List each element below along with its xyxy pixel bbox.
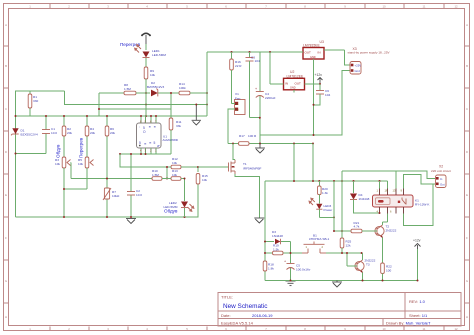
connector X3 bbox=[348, 47, 390, 74]
wire mid ground rail bbox=[228, 143, 313, 145]
svg-text:D: D bbox=[5, 150, 7, 154]
resistor R13 bbox=[167, 169, 185, 180]
svg-text:G: G bbox=[466, 279, 468, 283]
svg-text:X2: X2 bbox=[439, 165, 443, 169]
wire led3 bottom to v334 bbox=[319, 216, 334, 218]
svg-text:∊: ∊ bbox=[149, 125, 151, 129]
ground at bus2 bbox=[126, 219, 136, 224]
svg-text:100.0x16v: 100.0x16v bbox=[296, 268, 311, 272]
resistor R22 bbox=[381, 263, 392, 281]
ground at bottom bus bbox=[332, 281, 342, 288]
wire v334 column bbox=[333, 181, 335, 231]
node j198-167 bbox=[197, 166, 199, 168]
resistor R17 bbox=[239, 134, 258, 145]
node top bus dots bbox=[231, 51, 233, 53]
power flag +12V right bbox=[413, 239, 421, 281]
resistor R15 bbox=[196, 167, 208, 184]
led LED1 bbox=[135, 44, 167, 67]
wire y109 to ground col bbox=[99, 108, 171, 110]
svg-text:stand-by power supply 18...25V: stand-by power supply 18...25V bbox=[348, 51, 390, 55]
svg-text:12: 12 bbox=[454, 4, 458, 8]
svg-text:Drawn By: Muh_VertoleT: Drawn By: Muh_VertoleT bbox=[386, 321, 431, 326]
svg-text:104: 104 bbox=[325, 93, 330, 97]
svg-text:B: B bbox=[466, 64, 468, 68]
pushbutton B1 bbox=[302, 234, 330, 253]
svg-text:H: H bbox=[466, 315, 468, 319]
wire R1 top jog bbox=[65, 91, 207, 105]
svg-text:100 R: 100 R bbox=[248, 134, 257, 138]
svg-text:2200uF: 2200uF bbox=[265, 96, 276, 100]
svg-text:12: 12 bbox=[454, 327, 458, 331]
node j2598 bbox=[259, 117, 261, 119]
svg-text:∊: ∊ bbox=[149, 141, 151, 145]
voltage regulator U2 bbox=[270, 70, 320, 92]
svg-text:220 volt circuit: 220 volt circuit bbox=[431, 169, 451, 173]
resistor R14 bbox=[179, 82, 208, 95]
resistor R20 bbox=[318, 181, 329, 204]
svg-text:2018-06-19: 2018-06-19 bbox=[252, 313, 273, 318]
voltage regulator U3 bbox=[297, 40, 345, 135]
resistor R9 bbox=[144, 67, 155, 116]
svg-text:КНОПКА SB-1: КНОПКА SB-1 bbox=[309, 237, 330, 241]
svg-text:H: H bbox=[5, 315, 7, 319]
zener diode D1 bbox=[11, 128, 38, 136]
capacitor C2 bbox=[127, 154, 142, 217]
svg-text:T3: T3 bbox=[366, 263, 370, 267]
ground below R14 bbox=[192, 105, 201, 126]
svg-text:2N2222: 2N2222 bbox=[386, 229, 397, 233]
svg-text:20k: 20k bbox=[110, 131, 115, 135]
op-amp U1 bbox=[137, 116, 179, 154]
svg-text:Обдув: Обдув bbox=[56, 144, 61, 158]
resistor R6 bbox=[105, 116, 115, 187]
svg-text:OUT: OUT bbox=[305, 51, 312, 55]
wire R5 bottom to R3 col bbox=[64, 188, 87, 190]
svg-text:10k: 10k bbox=[172, 161, 177, 165]
svg-text:Power: Power bbox=[324, 208, 333, 212]
svg-text::: : bbox=[139, 125, 140, 129]
svg-text:10.0: 10.0 bbox=[51, 131, 57, 135]
wire top bus 15V bbox=[207, 51, 303, 53]
svg-text:10.0: 10.0 bbox=[136, 193, 142, 197]
node C6 to gnd return bbox=[313, 104, 315, 106]
wire relay top loop2 bbox=[403, 175, 435, 185]
ground at mid rail bbox=[255, 144, 265, 154]
svg-text:10k: 10k bbox=[172, 173, 177, 177]
wire gate line to T1 bbox=[198, 166, 226, 168]
frame ticks and indices bbox=[50, 4, 444, 9]
node u1 bottom dots bbox=[119, 153, 121, 155]
svg-text:Обдув: Обдув bbox=[164, 209, 178, 214]
wire X3 gnd down bbox=[260, 71, 350, 136]
led LED2 bbox=[164, 179, 194, 218]
wire bus1 bbox=[16, 115, 208, 117]
svg-text:11: 11 bbox=[423, 4, 426, 8]
svg-text:D: D bbox=[466, 150, 468, 154]
wire R12 R13 link bbox=[166, 167, 168, 179]
transistor T3 bbox=[347, 253, 376, 281]
svg-text:10k: 10k bbox=[150, 73, 155, 77]
svg-text:LM7812EE: LM7812EE bbox=[287, 74, 305, 78]
svg-text:RY-12W-K: RY-12W-K bbox=[415, 203, 430, 207]
mosfet T1 bbox=[226, 144, 262, 175]
ground T1 source bbox=[254, 218, 264, 223]
svg-text:104: 104 bbox=[255, 59, 260, 63]
svg-text:LED-5MM: LED-5MM bbox=[152, 53, 166, 57]
svg-text:10: 10 bbox=[382, 4, 386, 8]
wire U1 row down to R12 feed bbox=[120, 154, 167, 167]
resistor R12 bbox=[167, 157, 198, 169]
wire y109 line bbox=[98, 93, 100, 116]
capacitor C4 electrolytic bbox=[255, 52, 276, 118]
svg-text:20k: 20k bbox=[67, 131, 72, 135]
svg-text:O: O bbox=[143, 130, 146, 134]
node j146-93 bbox=[145, 92, 147, 94]
wire U2 in riser bbox=[269, 52, 271, 84]
svg-text:1N4448: 1N4448 bbox=[359, 197, 370, 201]
node j131-154 bbox=[130, 153, 132, 155]
svg-text:IRF540NPBF: IRF540NPBF bbox=[243, 167, 262, 171]
wire R8 row bbox=[99, 92, 124, 94]
resistor R23 12k bbox=[340, 238, 351, 253]
svg-text:1.8k: 1.8k bbox=[268, 267, 274, 271]
svg-text:1.5k: 1.5k bbox=[273, 247, 279, 251]
svg-text:1.5M: 1.5M bbox=[152, 173, 159, 177]
wire bus1 riser bbox=[206, 52, 208, 116]
resistor R4 bbox=[85, 116, 95, 157]
svg-text:Date:: Date: bbox=[221, 313, 231, 318]
wire D3R19 right col bbox=[290, 242, 292, 264]
capacitor C6 bbox=[314, 83, 331, 105]
resistor R10 bbox=[152, 169, 167, 180]
power flag +12V at U2 bbox=[315, 73, 323, 84]
svg-text:Sheet: 1/1: Sheet: 1/1 bbox=[409, 313, 428, 318]
svg-text:5: 5 bbox=[139, 141, 141, 145]
led LED3 bbox=[309, 198, 332, 217]
svg-text:Gnd: Gnd bbox=[355, 69, 361, 73]
svg-text:∊: ∊ bbox=[144, 142, 146, 146]
svg-text:R17: R17 bbox=[239, 134, 245, 138]
svg-text:12k: 12k bbox=[346, 244, 351, 248]
diode D4 bbox=[350, 181, 370, 201]
node j167 bbox=[166, 166, 168, 168]
resistor R18 bbox=[263, 261, 274, 271]
resistor R2 bbox=[62, 116, 72, 157]
svg-text:∊: ∊ bbox=[154, 125, 156, 129]
resistor R11 bbox=[169, 92, 182, 154]
node j64-189 bbox=[63, 188, 65, 190]
svg-text:+12v: +12v bbox=[413, 239, 421, 243]
resistor R16 bbox=[230, 52, 243, 104]
wire D4 to coil bottom bbox=[354, 200, 380, 214]
power flag Peregrev arrow bbox=[141, 33, 151, 44]
svg-text:10kΩ: 10kΩ bbox=[112, 194, 120, 198]
potentiometer R3 bbox=[55, 157, 71, 217]
wire X2 out to relay contact bbox=[404, 184, 434, 226]
svg-text:C: C bbox=[466, 107, 468, 111]
svg-text:X1: X1 bbox=[235, 92, 239, 96]
wire C3 C4 join bbox=[250, 118, 260, 144]
connector X1 fan bbox=[228, 92, 245, 144]
svg-text:5: 5 bbox=[154, 141, 156, 145]
node bus1 dots bbox=[45, 115, 47, 117]
svg-text:Out: Out bbox=[440, 183, 445, 187]
svg-text:F: F bbox=[466, 236, 468, 240]
wire T1 source to ground col bbox=[235, 174, 259, 218]
svg-text:EasyEDA V5.5.14: EasyEDA V5.5.14 bbox=[221, 321, 254, 326]
svg-text:4.7k: 4.7k bbox=[354, 224, 360, 228]
resistor R21 bbox=[351, 221, 375, 233]
svg-text:33k: 33k bbox=[176, 124, 181, 128]
svg-text:20k: 20k bbox=[90, 131, 95, 135]
svg-text:IN: IN bbox=[285, 81, 288, 85]
wire wiper row bbox=[71, 178, 152, 180]
svg-text:C: C bbox=[5, 107, 7, 111]
node U1 top pin dots bbox=[140, 115, 142, 117]
svg-text:E: E bbox=[5, 193, 7, 197]
svg-text:11: 11 bbox=[423, 327, 426, 331]
svg-text:100: 100 bbox=[386, 269, 391, 273]
svg-text:10k: 10k bbox=[55, 162, 60, 166]
svg-text:New Schematic: New Schematic bbox=[223, 303, 268, 310]
svg-text:A: A bbox=[5, 23, 7, 27]
svg-text:Перегрев: Перегрев bbox=[79, 137, 84, 158]
svg-text:G: G bbox=[5, 279, 7, 283]
svg-text:B: B bbox=[5, 64, 7, 68]
transistor T2 bbox=[334, 222, 397, 263]
svg-text:1N4448: 1N4448 bbox=[272, 234, 283, 238]
svg-text:BZX55C2V4: BZX55C2V4 bbox=[21, 132, 38, 136]
svg-text:1.3k: 1.3k bbox=[322, 191, 328, 195]
thermistor R7 bbox=[103, 187, 120, 217]
wire T3 collector tap bbox=[346, 252, 348, 254]
svg-text:Fan: Fan bbox=[235, 97, 241, 101]
potentiometer R5 bbox=[78, 157, 94, 189]
svg-text:IN: IN bbox=[318, 51, 321, 55]
svg-text:1.5M: 1.5M bbox=[124, 87, 131, 91]
capacitor C3 bbox=[246, 52, 260, 118]
resistor R1 bbox=[28, 91, 38, 116]
svg-text:+12v: +12v bbox=[315, 73, 323, 77]
svg-text:+: + bbox=[255, 87, 257, 91]
svg-text:22 R: 22 R bbox=[235, 64, 242, 68]
wire rail risers from gnd rail bbox=[293, 144, 295, 182]
node rail dots bbox=[293, 180, 295, 182]
svg-text:100k: 100k bbox=[179, 86, 186, 90]
wire v342 column bbox=[341, 171, 343, 238]
svg-text:REV: 1.0: REV: 1.0 bbox=[409, 299, 426, 304]
svg-text:U3: U3 bbox=[320, 40, 324, 44]
svg-text:10k: 10k bbox=[78, 162, 83, 166]
wire D3R19 left col bbox=[264, 181, 266, 281]
svg-text:GND: GND bbox=[310, 56, 316, 59]
svg-text:LM7815EE: LM7815EE bbox=[303, 44, 321, 48]
wire y154 rail bbox=[16, 153, 47, 155]
wire bus2 ground rail bbox=[16, 183, 199, 217]
svg-text:TITLE:: TITLE: bbox=[221, 295, 233, 300]
capacitor C1 bbox=[42, 116, 57, 154]
svg-text:10k: 10k bbox=[202, 178, 207, 182]
node mid rail dots bbox=[232, 143, 234, 145]
earth ground below C5 bbox=[286, 281, 296, 286]
wire relay top loop1 bbox=[342, 171, 435, 178]
svg-text:+25V: +25V bbox=[355, 64, 362, 68]
connector X2 bbox=[431, 165, 451, 188]
node bus2 dots bbox=[63, 216, 65, 218]
wire left rail bbox=[16, 91, 65, 217]
node j-99-109 bbox=[98, 108, 100, 110]
zener diode D2 bbox=[146, 81, 179, 96]
svg-text:E: E bbox=[466, 193, 468, 197]
wire led3 relay rail bbox=[265, 180, 388, 182]
svg-text:A: A bbox=[466, 23, 468, 27]
resistor R19 bbox=[273, 244, 284, 255]
diode D3 bbox=[265, 230, 291, 244]
svg-text:GND: GND bbox=[290, 87, 296, 90]
capacitor C5 electrolytic bbox=[284, 260, 311, 282]
svg-text:OUT: OUT bbox=[295, 81, 302, 85]
resistor R8 bbox=[124, 83, 146, 95]
svg-text:330: 330 bbox=[33, 99, 38, 103]
wire bottom bus bbox=[265, 280, 418, 282]
wire X3 to U3 bbox=[345, 50, 351, 65]
svg-text:T1: T1 bbox=[243, 162, 247, 166]
svg-text:F: F bbox=[5, 236, 7, 240]
svg-text:BZX55C2V3: BZX55C2V3 bbox=[147, 85, 164, 89]
relay K1 bbox=[373, 171, 431, 222]
svg-text:10: 10 bbox=[382, 327, 386, 331]
title block bbox=[218, 293, 461, 327]
svg-text:+: + bbox=[284, 260, 286, 264]
wire button row bbox=[265, 252, 302, 254]
